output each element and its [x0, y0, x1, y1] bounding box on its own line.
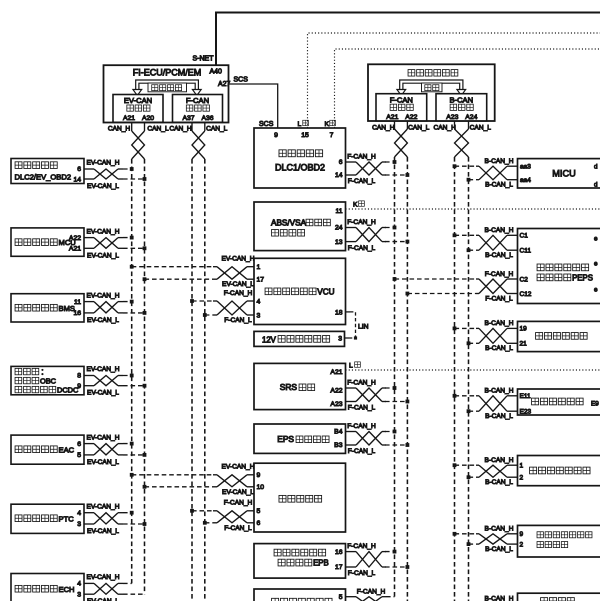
svg-text:EV-CAN_H: EV-CAN_H — [222, 256, 255, 263]
svg-text:9: 9 — [274, 132, 278, 139]
svg-text:PTC: PTC — [59, 514, 75, 523]
gateway ribbon 网关 — [397, 82, 466, 96]
svg-text:A37: A37 — [182, 115, 194, 122]
svg-text:F-CAN_H: F-CAN_H — [347, 423, 376, 430]
svg-text:10: 10 — [257, 484, 265, 491]
junction bus PEPS-F — [393, 277, 397, 281]
ECU 空调控制单元 (A/C) — [518, 321, 600, 351]
svg-text:e: e — [594, 236, 598, 243]
svg-text:6: 6 — [339, 159, 343, 166]
wire DLC2 EV-CAN_H/L to EV bus — [84, 160, 145, 190]
junction EV bus DLC2 — [130, 167, 134, 171]
svg-text:B3: B3 — [334, 442, 343, 449]
svg-text:A23: A23 — [330, 401, 342, 408]
svg-text:1: 1 — [257, 264, 261, 271]
svg-text:E9: E9 — [591, 401, 599, 408]
svg-text:CAN_H: CAN_H — [372, 125, 395, 132]
wire RADAR B-CAN_H/L to bus — [455, 526, 518, 553]
svg-text:EPB: EPB — [313, 559, 329, 568]
ECU bottom partial box (camera unit) — [254, 589, 346, 606]
svg-text:VCU: VCU — [317, 287, 334, 296]
svg-text:F-CAN: F-CAN — [390, 95, 413, 104]
svg-text:24: 24 — [335, 225, 343, 232]
ECU 驻车和倒车雷达控制单元 (parking radar) — [518, 525, 600, 557]
bus B-CAN_L vertical (dashed) — [468, 157, 470, 601]
svg-text:E11: E11 — [520, 393, 531, 400]
svg-text:C1: C1 — [520, 233, 529, 240]
svg-text:PEPS: PEPS — [572, 273, 593, 282]
wire AC B-CAN_H/L to bus — [455, 320, 518, 352]
bus F-CAN_H right vertical (dashed) — [394, 157, 396, 597]
wire bottom box F-CAN_H — [346, 588, 395, 606]
ECU 暖风加热器ECH — [11, 574, 84, 604]
wire PTC EV-CAN_H/L to EV bus — [84, 503, 145, 535]
wire SHIFT-F F-CAN_H/L to bus — [192, 500, 254, 532]
junction bus MICU — [453, 164, 457, 168]
svg-text:3: 3 — [77, 591, 81, 598]
svg-text:F-CAN_H: F-CAN_H — [347, 154, 376, 161]
wire K-line from ABS pin 11 (dotted) — [346, 208, 600, 210]
ECU SRS单元 — [254, 363, 346, 409]
junction bus HEADLIGHT — [453, 463, 457, 467]
wire L-line top (dotted) — [308, 33, 600, 128]
svg-text:EV-CAN_H: EV-CAN_H — [87, 574, 120, 581]
wire K-line top (dotted) — [335, 49, 600, 128]
svg-text:B-CAN_L: B-CAN_L — [485, 252, 513, 259]
ECU U2 仪表控制单元 (instrument cluster gateway) — [368, 64, 495, 121]
wire S-NET trunk — [216, 13, 600, 66]
transceiver B-CAN (A23 A24) — [436, 94, 487, 122]
wire AUDIO B-CAN_H/L to bus — [455, 388, 518, 421]
wire PEPS-B B-CAN_H/L to bus — [455, 227, 518, 259]
svg-text:B-CAN_H: B-CAN_H — [485, 227, 514, 234]
svg-text:A40: A40 — [210, 69, 223, 76]
svg-text:6: 6 — [77, 441, 81, 448]
ECU bottom-right partial box — [518, 593, 600, 606]
svg-text:A21: A21 — [330, 369, 342, 376]
svg-text:CAN_L: CAN_L — [408, 125, 430, 132]
svg-text:3: 3 — [257, 312, 261, 319]
svg-text:A36: A36 — [201, 115, 213, 122]
svg-text:aa4: aa4 — [520, 177, 531, 184]
svg-text:17: 17 — [257, 277, 265, 284]
junction bus VCU-EV — [130, 265, 134, 269]
svg-text:9: 9 — [520, 531, 524, 538]
svg-text:EV-CAN_L: EV-CAN_L — [222, 281, 254, 288]
svg-text:B-CAN_H: B-CAN_H — [485, 526, 514, 533]
svg-text:A22: A22 — [405, 114, 417, 121]
svg-text:E23: E23 — [520, 409, 532, 416]
wire MICU B-CAN_H/L to bus — [455, 158, 518, 189]
svg-text:A22: A22 — [330, 387, 342, 394]
svg-text:A21: A21 — [69, 246, 81, 253]
svg-text:B-CAN_H: B-CAN_H — [485, 457, 514, 464]
ECU U1 FI-ECU/PCM/EM — [104, 65, 231, 122]
svg-text:L: L — [349, 363, 353, 370]
svg-text:5: 5 — [77, 452, 81, 459]
svg-text:F-CAN_H: F-CAN_H — [224, 500, 253, 507]
svg-text:F-CAN_L: F-CAN_L — [224, 317, 252, 324]
junction bus SHIFT-F — [190, 509, 194, 513]
wire BMS EV-CAN_H/L to EV bus — [84, 292, 145, 324]
ECU 三合一 OBC/DCDC — [11, 366, 84, 394]
svg-text:F-CAN_H: F-CAN_H — [224, 290, 253, 297]
svg-text:F-CAN: F-CAN — [186, 96, 209, 105]
junction EV bus BMS — [130, 300, 134, 304]
svg-text:DLC1/OBD2: DLC1/OBD2 — [275, 163, 325, 173]
bus F-CAN_L right vertical (dashed) — [406, 157, 408, 601]
svg-text:EV-CAN_H: EV-CAN_H — [87, 366, 120, 373]
svg-text:F-CAN_H: F-CAN_H — [357, 588, 386, 595]
sensor 12V蓄电池传感器 (battery sensor) — [254, 331, 345, 346]
svg-text:F-CAN_H: F-CAN_H — [347, 219, 376, 226]
svg-text:A23: A23 — [446, 114, 458, 121]
svg-text:EV-CAN_L: EV-CAN_L — [87, 528, 119, 535]
ECU 整车控制单元VCU — [254, 258, 346, 324]
junction F bus EPB — [393, 550, 397, 554]
svg-text:B-CAN_H: B-CAN_H — [485, 158, 514, 165]
junction bus SHIFT-EV — [130, 473, 134, 477]
wire VCU-EV EV-CAN_H/L to bus — [132, 256, 255, 289]
svg-text:6: 6 — [257, 520, 261, 527]
svg-text:A21: A21 — [123, 115, 135, 122]
svg-text:K: K — [353, 202, 358, 209]
wire EPB F-CAN_H/L to F bus — [346, 543, 408, 577]
svg-text:13: 13 — [335, 239, 343, 246]
ECU 电子驻车制动控制单元EPB — [254, 544, 346, 579]
twisted pair EV-CAN vertical below EV transceiver — [132, 123, 145, 160]
wire SRS F-CAN_H/L to F bus — [346, 380, 408, 412]
svg-text:d: d — [594, 164, 598, 171]
junction bus PEPS-B — [453, 233, 457, 237]
svg-text:CAN_H: CAN_H — [108, 126, 131, 133]
svg-text:B4: B4 — [334, 429, 343, 436]
transceiver F-CAN (A37 A36) — [173, 95, 223, 123]
svg-text:EV-CAN_L: EV-CAN_L — [87, 317, 119, 324]
ECU 电机控制器MCU — [11, 228, 84, 256]
svg-text:1: 1 — [520, 463, 524, 470]
svg-text:EV-CAN_L: EV-CAN_L — [87, 459, 119, 466]
svg-text:CAN_L: CAN_L — [470, 125, 492, 132]
svg-text:DCDC: DCDC — [57, 385, 79, 394]
svg-text:L: L — [298, 121, 302, 128]
svg-text:17: 17 — [335, 564, 343, 571]
svg-text:e: e — [594, 261, 598, 268]
svg-text:19: 19 — [520, 326, 528, 333]
svg-text:C2: C2 — [520, 276, 529, 283]
svg-text:ABS/VSA: ABS/VSA — [271, 219, 307, 228]
svg-text:F-CAN_H: F-CAN_H — [347, 380, 376, 387]
svg-text:EV-CAN_L: EV-CAN_L — [222, 489, 254, 496]
svg-text:aa3: aa3 — [520, 164, 531, 171]
svg-text:：: ： — [41, 367, 49, 376]
svg-text:DLC2/EV_OBD2: DLC2/EV_OBD2 — [15, 173, 72, 182]
svg-text:EV-CAN_L: EV-CAN_L — [87, 390, 119, 397]
connector DLC2/EV_OBD2 — [11, 159, 84, 184]
twisted pair B-CAN vertical below cluster B transceiver — [455, 121, 469, 157]
svg-text:11: 11 — [74, 299, 81, 306]
junction bus VCU-F — [190, 299, 194, 303]
svg-text:3: 3 — [338, 336, 342, 343]
svg-text:EV-CAN: EV-CAN — [124, 96, 152, 105]
svg-text:14: 14 — [73, 177, 81, 184]
svg-text:6: 6 — [77, 166, 81, 173]
svg-text:F-CAN_L: F-CAN_L — [224, 525, 252, 532]
svg-text:5: 5 — [339, 594, 343, 601]
wire HEADLIGHT B-CAN_H/L to bus — [455, 457, 518, 486]
svg-text:9: 9 — [257, 472, 261, 479]
svg-text:F-CAN_H: F-CAN_H — [485, 271, 514, 278]
junction EV bus PTC — [130, 511, 134, 515]
svg-text:15: 15 — [301, 132, 309, 139]
ECU 电池控制器BMS — [11, 294, 84, 322]
wire PEPS-F F-CAN_H/L to bus — [395, 271, 518, 303]
svg-text:4: 4 — [77, 581, 81, 588]
connector DLC1/OBD2 — [254, 128, 346, 188]
svg-text:A20: A20 — [142, 115, 154, 122]
svg-text:3: 3 — [77, 521, 81, 528]
svg-text:9: 9 — [77, 383, 81, 390]
svg-text:d: d — [594, 182, 598, 189]
junction F bus SRS — [393, 386, 397, 390]
svg-text:21: 21 — [520, 341, 528, 348]
svg-text:4: 4 — [77, 510, 81, 517]
svg-text:A24: A24 — [465, 114, 477, 121]
svg-text:5: 5 — [257, 508, 261, 515]
svg-text:A21: A21 — [386, 114, 398, 121]
svg-text:EV-CAN_L: EV-CAN_L — [87, 252, 119, 259]
svg-text:12V: 12V — [262, 336, 277, 345]
svg-text:2: 2 — [520, 475, 524, 482]
svg-text:ECH: ECH — [59, 585, 75, 594]
svg-text:F-CAN_L: F-CAN_L — [348, 405, 376, 412]
wire SCS from FI-ECU A27 to DLC1 pin 9 — [229, 84, 278, 128]
svg-text:F-CAN_L: F-CAN_L — [348, 245, 376, 252]
svg-text:B-CAN_L: B-CAN_L — [485, 345, 513, 352]
wire SHIFT-EV EV-CAN_H/L to bus — [132, 464, 255, 496]
wire OBC EV-CAN_H/L to EV bus — [84, 366, 145, 397]
ECU 音响控制单元 (audio) — [518, 389, 600, 416]
junction F bus EPS — [393, 430, 397, 434]
svg-text:A27: A27 — [218, 81, 231, 88]
junction bus AUDIO — [453, 394, 457, 398]
ECU 智能钥匙进入控制单元PEPS — [518, 229, 600, 304]
svg-text:C11: C11 — [520, 248, 532, 255]
svg-text:SRS: SRS — [280, 382, 298, 392]
svg-text:A22: A22 — [69, 235, 81, 242]
svg-text:2: 2 — [520, 541, 524, 548]
twisted pair F-CAN vertical below cluster F transceiver — [395, 121, 408, 157]
svg-text:SCS: SCS — [259, 121, 274, 128]
bus F-CAN_L left vertical (dashed) — [204, 159, 206, 601]
wire MCU EV-CAN_H/L to EV bus — [84, 228, 145, 259]
svg-text:EAC: EAC — [59, 445, 75, 454]
svg-text:C12: C12 — [520, 291, 532, 298]
junction bus RADAR — [453, 532, 457, 536]
svg-text:B-CAN_L: B-CAN_L — [485, 479, 513, 486]
bus EV-CAN_H vertical (dashed) — [131, 159, 133, 583]
junction EV bus EAC — [130, 442, 134, 446]
svg-text:LIN: LIN — [358, 324, 369, 331]
svg-text:4: 4 — [257, 299, 261, 306]
svg-text:B-CAN: B-CAN — [449, 95, 473, 104]
svg-text:CAN_H: CAN_H — [169, 126, 192, 133]
svg-text:e: e — [594, 287, 598, 294]
svg-text:OBC: OBC — [40, 376, 57, 385]
svg-text:B-CAN_H: B-CAN_H — [485, 596, 514, 602]
svg-text:EV-CAN_H: EV-CAN_H — [87, 503, 120, 510]
svg-text:F-CAN_L: F-CAN_L — [348, 448, 376, 455]
junction F bus DLC1 — [393, 160, 397, 164]
svg-text:B-CAN_H: B-CAN_H — [485, 388, 514, 395]
twisted pair F-CAN vertical below FI-ECU F transceiver — [192, 123, 205, 160]
svg-text:18: 18 — [335, 309, 343, 316]
svg-text:F-CAN_H: F-CAN_H — [347, 543, 376, 550]
svg-text:F-CAN_L: F-CAN_L — [348, 570, 376, 577]
bus B-CAN_H vertical (dashed) — [454, 157, 456, 601]
ECU MICU — [518, 159, 600, 189]
bus EV-CAN_L vertical (dashed) — [144, 159, 146, 594]
svg-text:EV-CAN_H: EV-CAN_H — [87, 434, 120, 441]
svg-text:CAN_L: CAN_L — [206, 126, 228, 133]
ECU EPS控制单元 — [254, 424, 346, 453]
junction F bus ABS — [393, 226, 397, 230]
svg-text:B-CAN_H: B-CAN_H — [485, 320, 514, 327]
transceiver EV-CAN (A21 A20) — [113, 95, 163, 123]
wire EAC EV-CAN_H/L to EV bus — [84, 434, 145, 466]
svg-text:8: 8 — [77, 373, 81, 380]
junction EV bus OBC — [130, 374, 134, 378]
svg-text:EV-CAN_H: EV-CAN_H — [87, 228, 120, 235]
svg-text:11: 11 — [335, 208, 342, 215]
svg-text:CAN_H: CAN_H — [434, 125, 457, 132]
svg-text:16: 16 — [335, 549, 343, 556]
svg-text:CAN_L: CAN_L — [147, 126, 169, 133]
ECU 电池加热器PTC — [11, 504, 84, 533]
svg-text:B-CAN_L: B-CAN_L — [485, 546, 513, 553]
wire EPS F-CAN_H/L to F bus — [346, 423, 408, 455]
sensor 自动大灯传感器 (auto headlight) — [518, 456, 600, 486]
svg-text:S-NET: S-NET — [193, 56, 215, 63]
ECU 电子换档器 (shifter) — [254, 463, 346, 532]
wire DLC1 F-CAN_H/L to F bus — [346, 154, 408, 186]
svg-text:EV-CAN_H: EV-CAN_H — [87, 292, 120, 299]
wire ABS F-CAN_H/L to F bus — [346, 219, 408, 252]
gateway ribbon 诊断网关 — [133, 82, 201, 96]
bus F-CAN_H left vertical (dashed) — [191, 159, 193, 601]
ECU 电动压缩机EAC — [11, 435, 84, 464]
wire LIN VCU pin18 to battery sensor — [345, 312, 369, 340]
wire ECH EV-CAN_H/L to EV bus — [84, 574, 145, 605]
svg-text:EV-CAN_L: EV-CAN_L — [87, 183, 119, 190]
svg-text:EPS: EPS — [277, 434, 294, 444]
svg-text:K: K — [325, 121, 330, 128]
svg-text:EV-CAN_H: EV-CAN_H — [87, 160, 120, 167]
svg-text:SCS: SCS — [234, 77, 249, 84]
svg-text:EV-CAN_H: EV-CAN_H — [222, 464, 255, 471]
svg-text:FI-ECU/PCM/EM: FI-ECU/PCM/EM — [133, 68, 202, 78]
svg-text:14: 14 — [335, 172, 343, 179]
svg-text:B-CAN_L: B-CAN_L — [485, 413, 513, 420]
svg-text:MICU: MICU — [552, 169, 575, 179]
wire VCU-F F-CAN_H/L to bus — [192, 290, 254, 324]
ECU ABS/VSA 调节器控制单元 — [254, 202, 346, 251]
junction EV bus MCU — [130, 236, 134, 240]
wire L-line from SRS pin A21 (dotted) — [346, 369, 600, 371]
svg-text:F-CAN_L: F-CAN_L — [485, 295, 513, 302]
transceiver F-CAN (A21 A22) — [376, 94, 427, 122]
svg-text:7: 7 — [330, 132, 334, 139]
svg-text:F-CAN_L: F-CAN_L — [348, 178, 376, 185]
junction bus AC — [453, 327, 457, 331]
svg-text:B-CAN_L: B-CAN_L — [485, 182, 513, 189]
svg-text:16: 16 — [73, 310, 81, 317]
